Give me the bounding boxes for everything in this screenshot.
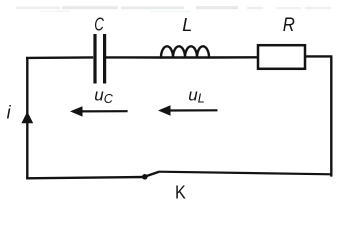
- wire inductor to resistor: [209, 56, 257, 59]
- wire top-left segment: [26, 56, 93, 59]
- wire capacitor to inductor: [106, 56, 162, 58]
- wire left vertical: [26, 58, 28, 178]
- resistor R: [258, 45, 305, 69]
- inductor L: [161, 46, 209, 57]
- wire right vertical: [330, 56, 332, 176]
- svg-text:L: L: [182, 15, 192, 35]
- wire bottom-left segment: [26, 177, 145, 178]
- voltage arrow uC: [70, 106, 128, 116]
- svg-text:K: K: [175, 181, 186, 202]
- wire bottom-right segment: [159, 172, 333, 175]
- capacitor C: [95, 34, 105, 84]
- switch K blade: [145, 172, 159, 177]
- switch K junction dot: [142, 174, 148, 180]
- voltage arrow uL: [158, 105, 218, 115]
- svg-text:R: R: [283, 13, 295, 36]
- wire resistor to top-right corner: [306, 55, 333, 57]
- current arrow i: [21, 112, 33, 124]
- svg-text:C: C: [94, 15, 104, 36]
